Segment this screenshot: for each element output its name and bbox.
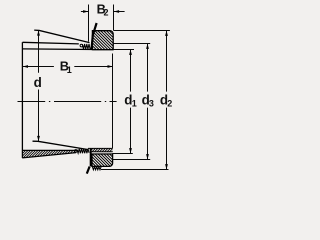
- thread loop bottom: [75, 150, 78, 153]
- centerline: [18, 101, 117, 103]
- sleeve bottom threaded strip hatch: [86, 148, 121, 153]
- dimension B2 line right tail: [114, 11, 125, 13]
- dimension d2 up arrow: [165, 31, 168, 36]
- svg-text:d: d: [34, 75, 42, 90]
- sleeve bottom threaded strip top line: [88, 147, 113, 149]
- dimension d2 down arrow: [165, 164, 168, 169]
- dimension d1 up arrow: [129, 50, 132, 55]
- svg-text:3: 3: [149, 99, 154, 109]
- svg-text:1: 1: [67, 65, 72, 75]
- thread teeth top: [82, 44, 90, 49]
- sleeve bottom bore line: [22, 149, 78, 151]
- dimension B2 left extension line: [88, 5, 90, 42]
- dimension d3 line lower segment: [147, 108, 149, 160]
- dimension B1 right arrow: [108, 65, 113, 68]
- sleeve bottom section hatch: [14, 150, 96, 160]
- dimension B2 left arrow: [83, 10, 88, 13]
- dimension d1 bottom extension line: [112, 153, 133, 155]
- dimension d3 up arrow: [146, 44, 149, 49]
- dimension d up arrow: [37, 30, 40, 35]
- dimension B1 left arrow: [23, 65, 28, 68]
- dimension d3 line upper segment: [147, 44, 149, 92]
- dimension d3 bottom extension line: [112, 159, 150, 161]
- sleeve top outer silhouette line: [23, 42, 79, 44]
- dimension d2 bottom extension line: [101, 169, 169, 171]
- svg-text:1: 1: [132, 99, 137, 109]
- sleeve top bore line: [23, 48, 93, 51]
- thread loop top: [80, 44, 83, 47]
- sleeve top taper slant line: [34, 30, 89, 42]
- dimension d line upper segment: [38, 30, 40, 72]
- dimension d3 top extension line: [113, 43, 150, 45]
- dimension d2 top extension line: [114, 30, 170, 32]
- dimension d3 down arrow: [146, 154, 149, 159]
- dimension d1 line upper segment: [130, 50, 132, 92]
- locknut bottom cross-section: [92, 154, 113, 166]
- dimension d1 top extension line: [113, 49, 134, 51]
- dimension d2 line upper segment: [166, 31, 168, 92]
- lock washer bottom: [90, 149, 92, 167]
- sleeve bottom dimension slant line: [33, 141, 89, 149]
- dimension B2 right arrow: [114, 10, 119, 13]
- dimension B2 line left tail: [81, 11, 88, 13]
- dimension B1 right extension line: [112, 54, 114, 149]
- dimension d1 line lower segment: [130, 108, 132, 154]
- dimension d2 line lower segment: [166, 108, 168, 170]
- lock washer tab bottom: [87, 167, 90, 174]
- thread teeth bottom: [77, 149, 89, 154]
- locknut top cross-section: [92, 31, 113, 50]
- svg-text:2: 2: [104, 8, 109, 18]
- sleeve left face: [21, 42, 23, 158]
- dimension B2 right extension line: [113, 5, 115, 31]
- dimension d down arrow: [37, 136, 40, 141]
- sleeve bottom threaded strip bottom line: [90, 151, 113, 153]
- sleeve bottom taper line: [22, 153, 76, 158]
- dimension B1 line: [23, 66, 54, 68]
- svg-text:2: 2: [167, 99, 172, 109]
- lock washer top with tab: [92, 23, 97, 49]
- dimension d line lower segment: [38, 90, 40, 142]
- locknut top bottom edge: [92, 49, 113, 51]
- thread teeth under bottom nut: [92, 167, 101, 170]
- dimension d1 down arrow: [129, 148, 132, 153]
